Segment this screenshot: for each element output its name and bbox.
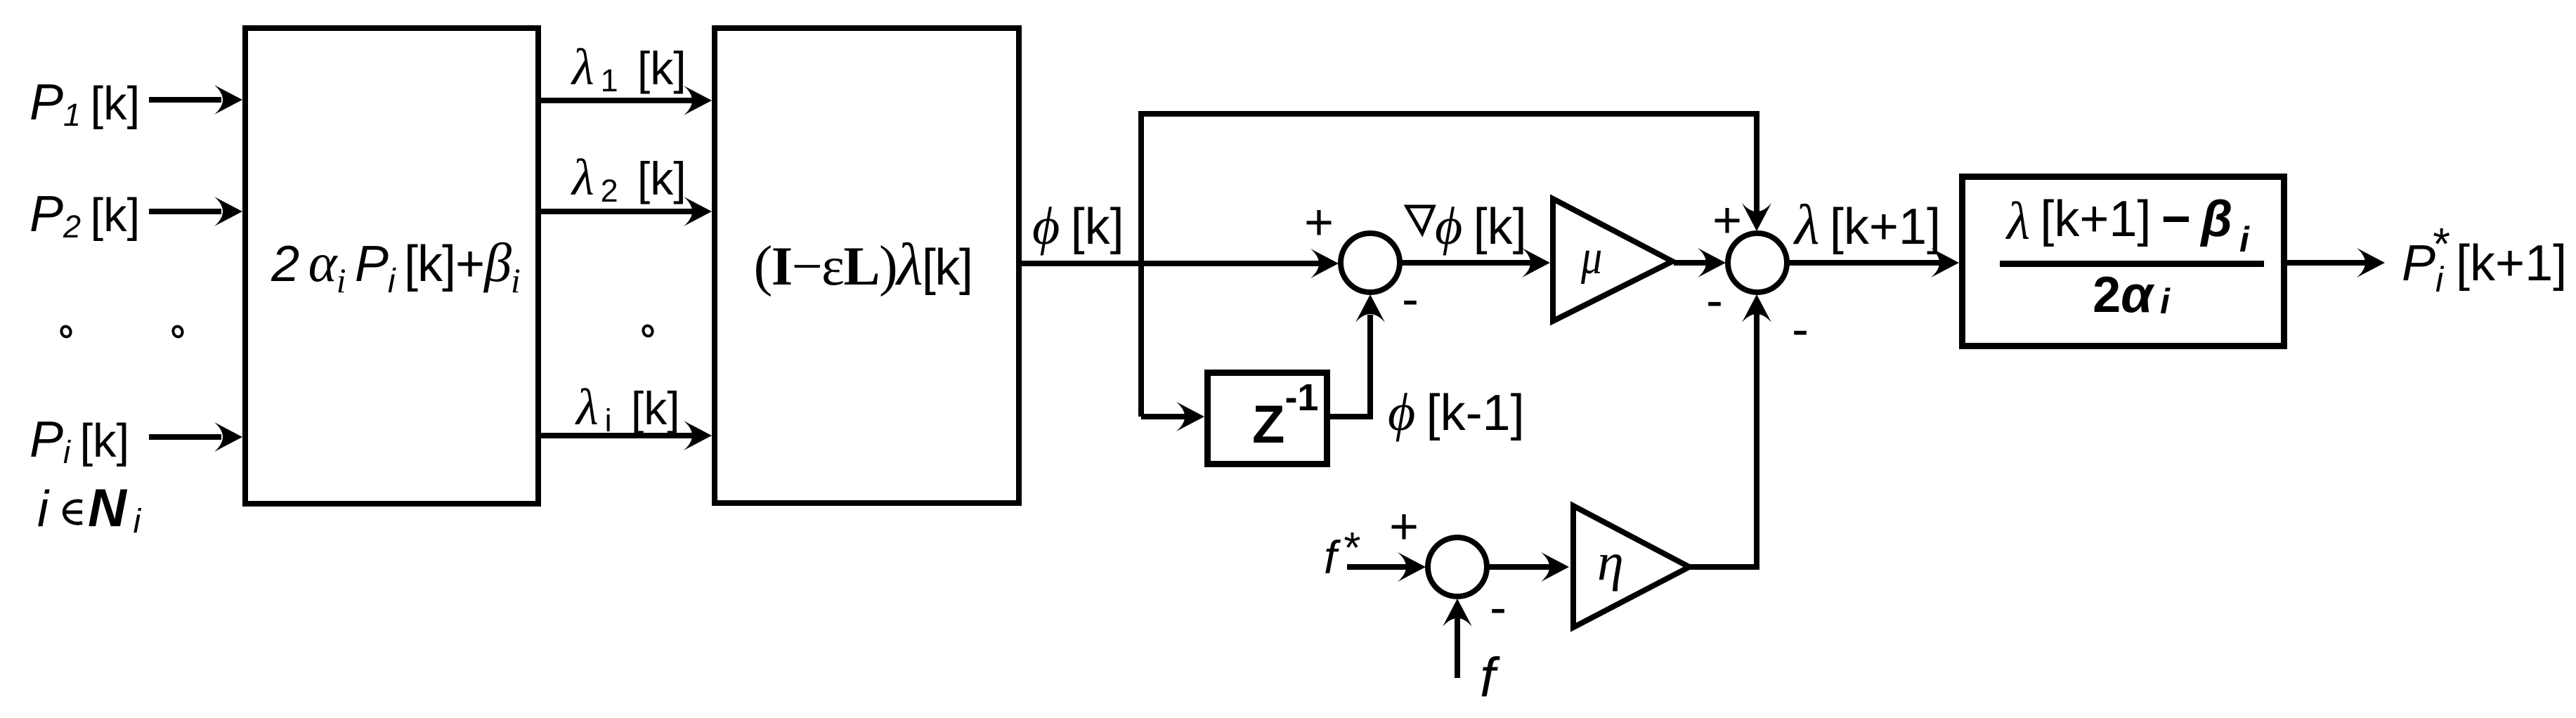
- svg-text:+: +: [1389, 499, 1419, 555]
- svg-text:i: i: [37, 481, 50, 537]
- svg-text:-: -: [1706, 273, 1723, 329]
- svg-text:P2 [k]: P2 [k]: [30, 186, 140, 244]
- svg-text:η: η: [1597, 533, 1624, 592]
- svg-text:(I−εL)λ[k]: (I−εL)λ[k]: [754, 230, 972, 298]
- svg-text:P1 [k]: P1 [k]: [30, 74, 140, 133]
- svg-text:+: +: [1712, 192, 1742, 249]
- svg-text:ϕ [k-1]: ϕ [k-1]: [1388, 383, 1525, 442]
- svg-text:-: -: [1490, 580, 1507, 636]
- svg-text:2 αi Pi [k]+βi: 2 αi Pi [k]+βi: [271, 232, 520, 300]
- svg-text:λ 2 [k]: λ 2 [k]: [571, 149, 687, 209]
- svg-text:μ: μ: [1580, 230, 1602, 285]
- svg-text:Pi [k]: Pi [k]: [30, 412, 129, 470]
- svg-text:λ 1 [k]: λ 1 [k]: [571, 39, 687, 98]
- svg-text:λ i [k]: λ i [k]: [575, 379, 680, 438]
- svg-text:-: -: [1792, 301, 1809, 358]
- svg-text:ϕ [k]: ϕ [k]: [1032, 197, 1124, 256]
- svg-text:-: -: [1402, 271, 1419, 327]
- svg-text:+: +: [1304, 195, 1334, 251]
- svg-text:λ [k+1]: λ [k+1]: [1793, 192, 1941, 256]
- svg-text:ϕ [k]: ϕ [k]: [1435, 197, 1527, 256]
